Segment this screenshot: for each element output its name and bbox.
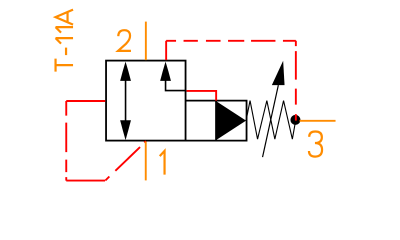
port label 2 [118, 30, 131, 51]
flow-path double-headed arrow (port 2 to port 1) [120, 62, 131, 141]
pilot line: link from valve right edge to check element [187, 91, 217, 101]
pilot line (dashed): top loop from pilot arrow to node 3 [166, 41, 296, 121]
port label 1 [160, 151, 165, 175]
cavity label T-11A (rotated) [56, 10, 74, 72]
port label 3 [309, 132, 322, 157]
node at port 3 (junction dot) [290, 115, 300, 125]
pilot flow arrow (to port 2) [160, 62, 185, 91]
wire: port 3 line [300, 120, 336, 122]
pilot line (dashed): left loop from valve side to port 1 [66, 101, 146, 181]
wire: port 1 line [145, 142, 147, 181]
check element box (seat stage) [186, 101, 247, 141]
check poppet (filled triangle) [216, 101, 246, 140]
wire: port 2 line [145, 22, 147, 61]
spring adjustment arrow [263, 61, 285, 157]
spring (adjustable) [246, 101, 295, 140]
valve V1 main envelope (normally-closed poppet valve body) [106, 61, 186, 141]
